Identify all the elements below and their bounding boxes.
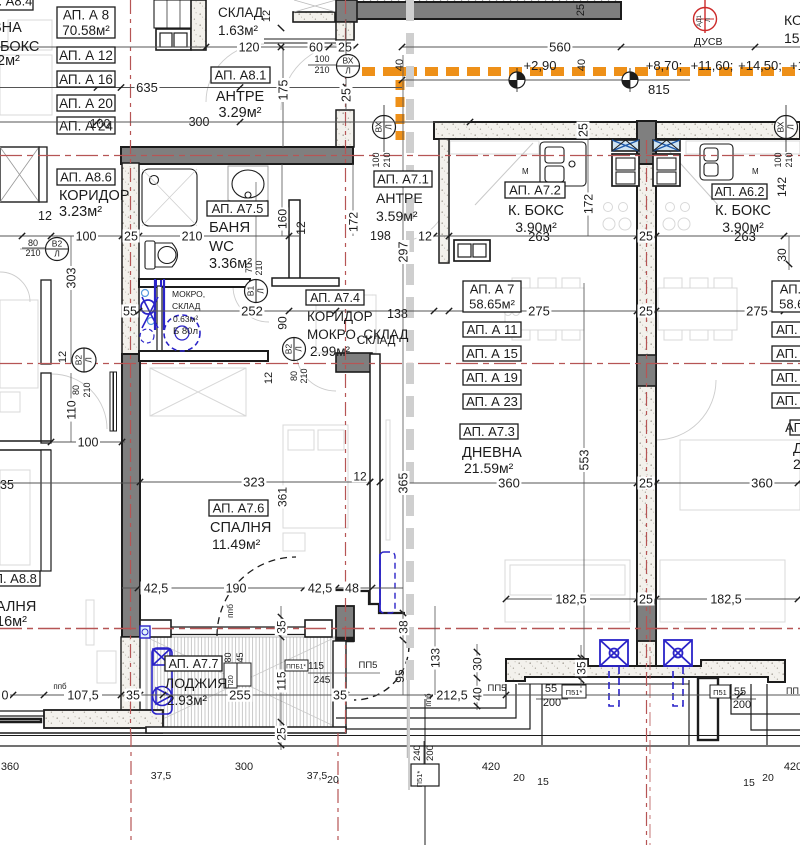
dim 303 / 55 left [70, 236, 72, 364]
svg-text:АП. А6.2: АП. А6.2 [715, 185, 765, 199]
survey markers [509, 68, 525, 92]
svg-text:АП. А7.1: АП. А7.1 [377, 172, 429, 187]
svg-text:297: 297 [397, 242, 411, 263]
antre west wall column [336, 110, 354, 147]
svg-text:СКЛАД: СКЛАД [218, 5, 263, 20]
svg-text:2м²: 2м² [0, 53, 20, 69]
svg-text:142: 142 [775, 177, 789, 197]
svg-text:55: 55 [123, 305, 137, 319]
svg-text:АП. А 6: АП. А 6 [780, 282, 800, 297]
svg-text:100: 100 [314, 54, 329, 64]
label АП. А7.3 [460, 424, 518, 439]
label right 4 [772, 370, 800, 385]
label АП. А 8 [57, 7, 115, 38]
left vertical wall (concrete) [122, 163, 139, 354]
dim y483 center [403, 482, 800, 484]
svg-text:АП. А8.4: АП. А8.4 [0, 0, 32, 9]
svg-text:240: 240 [412, 745, 423, 761]
svg-text:3.90м²: 3.90м² [722, 219, 764, 235]
label АП. А 20 [57, 95, 115, 111]
svg-text:245: 245 [314, 675, 331, 686]
svg-text:190: 190 [226, 582, 247, 596]
svg-text:АП. А 14: АП. А 14 [776, 346, 800, 361]
vx circle 2 [373, 116, 396, 139]
svg-text:133: 133 [428, 648, 442, 668]
loggia dims vertical [280, 606, 282, 750]
svg-text:635: 635 [136, 80, 158, 95]
svg-text:Л: Л [256, 288, 266, 294]
svg-text:АНТРЕ: АНТРЕ [216, 89, 265, 105]
door mark В2 Л left [72, 348, 96, 372]
svg-text:СПАЛНЯ: СПАЛНЯ [210, 520, 271, 536]
loggia bottom edge [146, 727, 346, 733]
svg-text:АП. А 18: АП. А 18 [776, 370, 800, 385]
svg-text:0: 0 [2, 689, 9, 703]
svg-text:420: 420 [482, 761, 500, 773]
svg-text:3.23м²: 3.23м² [59, 204, 102, 220]
svg-text:АП. А8.1: АП. А8.1 [215, 68, 267, 83]
svg-text:210: 210 [182, 230, 203, 244]
svg-text:210: 210 [254, 260, 264, 275]
svg-text:12: 12 [57, 351, 69, 363]
kitchen A7.2 west wall [439, 139, 449, 263]
svg-text:553: 553 [578, 450, 592, 471]
svg-text:3.29м²: 3.29м² [218, 105, 261, 121]
svg-text:WC: WC [209, 238, 234, 255]
svg-text:560: 560 [549, 40, 571, 55]
svg-text:АП. А7.3: АП. А7.3 [463, 424, 515, 439]
svg-text:Л: Л [54, 249, 60, 259]
furniture outlines (light) [0, 20, 800, 683]
label АП. А 19 [463, 370, 521, 385]
svg-text:25: 25 [575, 4, 587, 16]
svg-text:100: 100 [371, 152, 381, 167]
svg-text:25: 25 [639, 593, 653, 607]
svg-text:210: 210 [25, 248, 40, 258]
svg-text:172: 172 [346, 212, 360, 232]
left edge slab lines [0, 711, 163, 733]
svg-text:42,5: 42,5 [144, 582, 168, 596]
small vertical dims bottom center [400, 610, 406, 616]
svg-text:210: 210 [299, 368, 309, 383]
bottom long lines [0, 735, 800, 737]
svg-text:АП. А 15: АП. А 15 [466, 346, 518, 361]
svg-text:К. БОКС: К. БОКС [508, 203, 564, 219]
dim 160 / 172 / 198 [281, 164, 283, 236]
svg-text:АП. А 22: АП. А 22 [776, 393, 800, 408]
stove boxes by central wall [612, 154, 639, 186]
dim line y87-88 [0, 87, 402, 89]
svg-text:П51*: П51* [566, 688, 583, 697]
svg-text:АП. А8.8: АП. А8.8 [0, 571, 37, 586]
svg-text:АП. А7.4: АП. А7.4 [310, 291, 360, 305]
svg-text:ЛОДЖИЯ: ЛОДЖИЯ [165, 675, 227, 691]
svg-text:200: 200 [425, 745, 436, 761]
svg-text:100: 100 [78, 436, 99, 450]
antre west wall top [336, 22, 354, 40]
label А6.1 (clipped) [785, 420, 800, 435]
svg-text:Л: Л [384, 124, 394, 130]
svg-text:210: 210 [314, 65, 329, 75]
svg-text:30: 30 [775, 248, 789, 262]
svg-text:25: 25 [639, 305, 653, 319]
svg-text:212,5: 212,5 [436, 689, 467, 703]
svg-text:58.65м²: 58.65м² [779, 297, 800, 312]
svg-text:ппб: ппб [53, 682, 67, 691]
central wall top column (dark) [637, 121, 656, 164]
svg-text:ПП5: ПП5 [359, 660, 378, 671]
svg-text:В2: В2 [52, 239, 63, 249]
svg-text:АП. А 20: АП. А 20 [59, 96, 113, 111]
top wall band (dark) [351, 2, 621, 19]
svg-text:25: 25 [639, 477, 653, 491]
svg-text:360: 360 [498, 476, 520, 491]
elevator shaft [0, 147, 39, 202]
svg-text:П51: П51 [713, 688, 727, 697]
svg-text:Л: Л [706, 18, 712, 22]
label АП. А 23 [463, 394, 521, 409]
svg-text:АП. А7.2: АП. А7.2 [509, 183, 561, 198]
A8.8 east wall upper [41, 280, 51, 364]
svg-text:37,5: 37,5 [307, 770, 328, 782]
svg-text:182,5: 182,5 [710, 593, 741, 607]
dim 175 [282, 47, 284, 147]
svg-text:АП. А6.1: АП. А6.1 [785, 420, 800, 435]
dim y482 bedroom [140, 481, 370, 483]
svg-text:АП. А8.6: АП. А8.6 [60, 170, 112, 185]
svg-text:2.93м²: 2.93м² [167, 693, 208, 708]
svg-text:Д: Д [793, 441, 800, 457]
svg-text:15: 15 [743, 777, 755, 789]
blue drains bottom [600, 640, 628, 666]
svg-text:11.49м²: 11.49м² [212, 536, 261, 552]
kitchen A7.2 bottom cabinet [454, 240, 490, 261]
central wall (concrete, full height) [637, 139, 656, 666]
label АП. А7.7 [165, 656, 222, 671]
svg-text:БАНЯ: БАНЯ [209, 219, 250, 236]
AD1 symbol red [694, 0, 717, 33]
svg-text:21.59м²: 21.59м² [464, 460, 514, 476]
bedroom SE corner walls [320, 590, 405, 613]
svg-text:100: 100 [773, 152, 783, 167]
svg-text:20: 20 [762, 772, 774, 784]
svg-text:303: 303 [65, 268, 79, 289]
svg-text:ппб: ппб [225, 604, 235, 618]
label АП. А 6 (clipped) [772, 281, 800, 312]
svg-text:323: 323 [243, 475, 265, 490]
svg-text:58.65м²: 58.65м² [469, 297, 515, 312]
wall next to elevator [39, 147, 47, 202]
central wall column 1 [637, 355, 656, 386]
bedroom west wall (dark) [122, 354, 140, 637]
svg-text:60: 60 [309, 41, 323, 55]
svg-text:АП. А 8: АП. А 8 [63, 8, 109, 23]
svg-text:80: 80 [71, 385, 81, 395]
svg-text:12: 12 [353, 469, 367, 483]
svg-text:К. БОКС: К. БОКС [715, 203, 771, 219]
svg-text:48: 48 [345, 582, 359, 596]
svg-text:210: 210 [382, 152, 392, 167]
svg-text:25: 25 [577, 123, 591, 137]
svg-text:ПП5: ПП5 [488, 683, 507, 694]
bath partition horizontal [272, 278, 339, 286]
bedroom south wall sills [140, 620, 171, 637]
svg-text:160: 160 [275, 209, 289, 229]
label АП. А8.6 [57, 169, 115, 185]
svg-text:300: 300 [235, 761, 253, 773]
loggia A7.7 floor hatch [146, 637, 336, 728]
loggia east wall [333, 641, 346, 728]
toilet [145, 241, 178, 269]
svg-text:М: М [522, 167, 529, 176]
svg-text:80: 80 [28, 238, 38, 248]
svg-text:2: 2 [793, 456, 800, 472]
north concrete band (kitchens) [434, 122, 800, 139]
mokro washer+boiler (blue) [140, 279, 200, 351]
dim y 442 left [51, 441, 125, 443]
svg-text:70.58м²: 70.58м² [62, 23, 110, 38]
svg-text:172: 172 [581, 194, 595, 214]
window line sklad [264, 38, 336, 40]
label А8.4 (clipped) [0, 0, 33, 10]
svg-text:ВХ: ВХ [776, 121, 786, 132]
dark block top [336, 0, 357, 22]
svg-text:107,5: 107,5 [67, 689, 98, 703]
svg-text:20: 20 [327, 774, 339, 786]
bath south wall [139, 279, 250, 287]
svg-text:П51*: П51* [415, 771, 424, 788]
label АП. А6.2 [712, 184, 767, 199]
svg-text:120: 120 [239, 41, 260, 55]
label АП. А7.1 [374, 171, 432, 187]
svg-text:+1: +1 [790, 58, 800, 73]
svg-text:15.4: 15.4 [784, 30, 800, 46]
svg-text:37,5: 37,5 [151, 770, 172, 782]
svg-text:25: 25 [340, 88, 354, 102]
svg-text:815: 815 [648, 82, 670, 97]
svg-text:+8,70;: +8,70; [646, 58, 683, 73]
svg-text:ВХ: ВХ [343, 56, 354, 66]
svg-text:КОРИДОР: КОРИДОР [59, 188, 129, 204]
svg-text:АП. А7.5: АП. А7.5 [212, 201, 264, 216]
dim line y47 top [0, 46, 355, 48]
section line (gray dashed) [406, 0, 414, 680]
label АП. А 12 [57, 47, 115, 63]
svg-text:Б 80л: Б 80л [173, 326, 198, 337]
svg-text:100: 100 [76, 230, 97, 244]
svg-text:ВХ: ВХ [374, 121, 384, 132]
svg-text:АП. А 19: АП. А 19 [466, 370, 518, 385]
label АП. А 15 [463, 346, 521, 361]
svg-text:30: 30 [470, 657, 484, 671]
vertical dim 25 under band [345, 19, 347, 110]
svg-text:275: 275 [528, 304, 550, 319]
label АП. А 7 [463, 281, 521, 312]
svg-text:АП. А 7: АП. А 7 [470, 282, 515, 297]
dim y311 long [139, 310, 800, 312]
vertical dims 553 / 365 [583, 283, 585, 658]
wardrobe sklad [154, 0, 194, 28]
loggia NE column (dark) [336, 353, 372, 372]
svg-text:182,5: 182,5 [555, 593, 586, 607]
svg-text:55: 55 [545, 683, 557, 695]
label right 3 [772, 346, 800, 361]
svg-text:40: 40 [394, 59, 406, 71]
hatch ticks above top band [356, 0, 618, 3]
vx circle 3 right [775, 116, 798, 139]
svg-text:АП. А 12: АП. А 12 [59, 48, 113, 63]
svg-text:АП. А7.7: АП. А7.7 [169, 657, 219, 671]
svg-text:25: 25 [274, 727, 288, 741]
svg-text:АП. А 23: АП. А 23 [466, 394, 518, 409]
svg-text:200: 200 [733, 699, 751, 711]
svg-text:40: 40 [576, 59, 588, 71]
svg-text:АД1: АД1 [697, 15, 703, 27]
svg-text:СПАЛНЯ: СПАЛНЯ [0, 599, 36, 615]
bath partition vertical [289, 200, 300, 285]
svg-text:25: 25 [639, 230, 653, 244]
svg-text:Л: Л [294, 346, 304, 352]
svg-text:ДНЕВНА: ДНЕВНА [0, 20, 22, 36]
svg-text:115: 115 [308, 661, 324, 672]
sklad kitchen cabinet [156, 29, 191, 50]
door mark В1 Л bath [245, 280, 268, 303]
mokro closet partition [157, 286, 162, 352]
blue window boxes in band [612, 140, 639, 151]
slab left (neighbour) [44, 710, 163, 728]
svg-text:1.63м²: 1.63м² [218, 23, 259, 38]
svg-text:КОР: КОР [784, 12, 800, 28]
svg-text:СКЛАД: СКЛАД [172, 301, 201, 311]
loggia west wall (concrete) [121, 637, 140, 728]
svg-text:210: 210 [784, 152, 794, 167]
svg-text:3.36м²: 3.36м² [209, 256, 252, 272]
door mark В2 Л corridor [283, 338, 306, 361]
shaft X [294, 0, 336, 12]
svg-text:420: 420 [784, 761, 800, 773]
A8.8 lower east wall [41, 450, 51, 571]
svg-text:3.90м²: 3.90м² [515, 219, 557, 235]
svg-text:ДУСВ: ДУСВ [694, 36, 723, 48]
svg-text:360: 360 [751, 476, 773, 491]
svg-text:0.63м²: 0.63м² [173, 314, 198, 324]
label АП. А 11 [463, 322, 521, 337]
label АП. А7.6 [209, 500, 268, 516]
svg-text:175: 175 [277, 80, 291, 101]
svg-text:365: 365 [397, 473, 411, 494]
svg-text:110: 110 [64, 400, 78, 419]
svg-text:12: 12 [418, 230, 432, 244]
dim y695 bottom [0, 694, 560, 696]
central wall column 2 (bottom) [637, 600, 656, 641]
ППБ1* label [285, 660, 308, 671]
shower [142, 169, 197, 226]
svg-text:ппб: ппб [424, 693, 433, 707]
label АП. А8.1 [211, 67, 270, 83]
svg-text:255: 255 [229, 688, 251, 703]
washbasin [228, 166, 268, 204]
orange marking line [362, 72, 800, 141]
dim y588 bedroom bottom [122, 587, 403, 589]
label АП. А7.4 [306, 290, 364, 305]
sklad east wall (hatched) [191, 0, 206, 50]
label АП. А8.8 (clipped) [0, 571, 40, 586]
label АП. А 24 [57, 117, 115, 134]
svg-text:12: 12 [294, 221, 308, 235]
A8.8 south wall [0, 440, 51, 442]
svg-text:361: 361 [275, 487, 289, 507]
door mark ВХ Л entry [337, 55, 360, 78]
svg-text:М: М [752, 167, 759, 176]
dim y236 right [420, 235, 800, 237]
svg-text:42,5: 42,5 [308, 582, 332, 596]
bedroom south window [171, 626, 305, 628]
svg-text:95: 95 [393, 669, 407, 683]
svg-text:40: 40 [470, 687, 484, 701]
svg-text:АП. А 16: АП. А 16 [59, 72, 113, 87]
blue small box at sill [140, 626, 150, 638]
svg-text:В1: В1 [246, 286, 256, 297]
label АП. А 16 [57, 71, 115, 87]
window box [337, 24, 354, 38]
svg-text:Л: Л [786, 124, 796, 130]
svg-text:Л: Л [84, 357, 94, 363]
svg-text:35: 35 [274, 620, 288, 634]
svg-text:35: 35 [126, 689, 140, 703]
svg-text:275: 275 [746, 304, 768, 319]
svg-text:ПП: ПП [786, 686, 799, 696]
balcony slab bottom right [506, 659, 785, 682]
svg-text:+2,90: +2,90 [524, 58, 557, 73]
svg-text:АНТРЕ: АНТРЕ [376, 190, 423, 206]
corridor A7.4 south wall [139, 351, 268, 361]
svg-text:В2: В2 [284, 344, 294, 355]
svg-text:Л: Л [345, 66, 351, 76]
svg-text:2.99м²: 2.99м² [310, 344, 351, 359]
svg-text:12: 12 [38, 209, 52, 223]
svg-text:115: 115 [274, 671, 288, 690]
partition above antre [293, 12, 335, 22]
svg-text:80: 80 [289, 371, 299, 381]
svg-text:В2: В2 [74, 355, 84, 366]
blue planter bedroom [380, 552, 395, 613]
sink A7.2 [540, 142, 586, 186]
svg-text:198: 198 [370, 229, 391, 243]
loggia NE column lower (dark) [336, 606, 354, 641]
label АП. А7.2 [505, 182, 565, 198]
main horizontal wall band [121, 147, 353, 164]
svg-text:СКЛАД: СКЛАД [357, 335, 396, 347]
svg-text:210: 210 [82, 382, 92, 397]
svg-text:25: 25 [124, 230, 138, 244]
svg-text:35: 35 [333, 689, 347, 703]
svg-text:90: 90 [275, 316, 289, 330]
svg-text:АП. А 10: АП. А 10 [776, 322, 800, 337]
svg-text:КОРИДОР: КОРИДОР [307, 309, 373, 324]
П51 labels right [562, 685, 586, 698]
svg-text:38: 38 [396, 620, 410, 634]
svg-text:МОКРО,: МОКРО, [172, 289, 205, 299]
blue loggia door unit [152, 648, 172, 714]
svg-text:252: 252 [241, 304, 263, 319]
svg-text:360: 360 [1, 761, 19, 773]
label АП. А7.5 [207, 201, 268, 216]
svg-text:35: 35 [574, 661, 588, 675]
svg-text:55: 55 [734, 686, 746, 698]
svg-text:АП. А 11: АП. А 11 [467, 322, 518, 337]
svg-text:15: 15 [537, 776, 549, 788]
svg-text:+14,50;: +14,50; [738, 58, 782, 73]
